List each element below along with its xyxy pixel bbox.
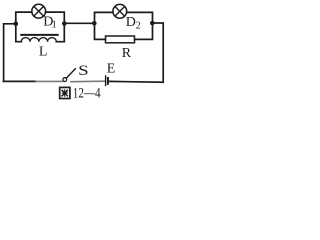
switch S lever xyxy=(67,69,76,78)
wire: resistor right to bottom-right corner up to right node xyxy=(135,23,153,39)
wire: right loop left vertical and top wire to lamp D2 xyxy=(95,12,113,23)
wire: switch to battery (gray in scan) xyxy=(71,80,105,83)
wire: inductor right to bottom-right corner up to right node xyxy=(56,24,64,42)
node D (right node of R-D2 block) xyxy=(150,21,155,26)
svg-text:L: L xyxy=(39,45,48,60)
lamp D1 xyxy=(32,4,46,18)
battery E short thick plate xyxy=(107,78,109,84)
inductor L coil xyxy=(21,38,56,42)
wire: lamp D1 right to top-right corner, down to right node xyxy=(46,12,65,23)
label D1 xyxy=(43,14,56,30)
wire: connecting wire between blocks xyxy=(64,22,94,24)
node C (left node of R-D2 block) xyxy=(92,21,97,26)
svg-text:R: R xyxy=(122,46,132,61)
wire: left branch from node A to left edge and down xyxy=(4,24,16,82)
svg-text:12—4: 12—4 xyxy=(73,86,101,101)
lamp D2 xyxy=(113,4,127,18)
wire: bottom segment to switch (gray in scan) xyxy=(36,80,63,82)
svg-text:S: S xyxy=(78,63,89,79)
svg-text:1: 1 xyxy=(52,19,57,30)
wire: right loop left vertical lower part to resistor xyxy=(95,23,106,39)
wire: left loop top-left vertical and top wire to lamp D1 xyxy=(16,12,32,23)
wire: battery to bottom-right corner and up right edge to node D xyxy=(109,23,163,82)
battery E long plate xyxy=(105,76,107,85)
switch S pivot xyxy=(63,78,67,82)
caption: 图 glyph drawn as strokes xyxy=(60,87,70,98)
resistor R xyxy=(106,36,135,43)
node A (left node of L-D1 block) xyxy=(14,22,19,27)
svg-text:2: 2 xyxy=(136,21,141,32)
node B (right node of L-D1 block) xyxy=(62,21,67,26)
svg-text:E: E xyxy=(107,61,116,76)
label D2 xyxy=(126,15,141,32)
wire: lamp D2 right to top-right corner down to right node xyxy=(127,12,153,23)
wire: left loop left vertical lower part to inductor xyxy=(16,24,21,42)
inductor iron core bar xyxy=(21,34,58,36)
wire: bottom left segment xyxy=(4,80,36,82)
svg-text:D: D xyxy=(126,15,136,30)
